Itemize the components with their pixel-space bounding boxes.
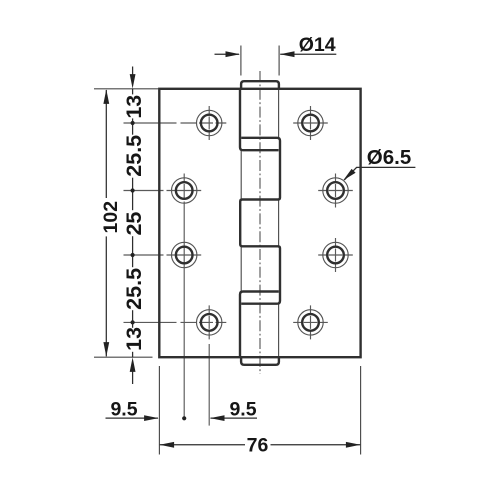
svg-text:13: 13 [122,95,146,119]
svg-text:Ø14: Ø14 [299,34,336,56]
svg-text:9.5: 9.5 [229,399,256,421]
svg-text:13: 13 [122,327,146,351]
svg-text:102: 102 [100,201,122,234]
svg-text:25: 25 [122,212,146,236]
svg-text:25.5: 25.5 [122,135,146,177]
svg-text:9.5: 9.5 [110,399,137,421]
svg-text:Ø6.5: Ø6.5 [367,146,411,169]
svg-text:76: 76 [247,434,269,456]
svg-text:25.5: 25.5 [122,268,146,310]
